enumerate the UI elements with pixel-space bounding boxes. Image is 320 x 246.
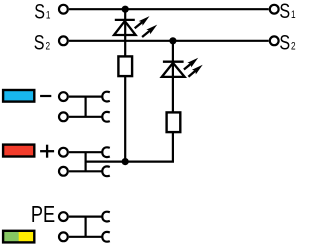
wire S2 [69, 40, 269, 42]
label S2 left [34, 31, 50, 55]
resistor R2 [167, 112, 181, 132]
label S1 left [34, 0, 50, 24]
wire minus link [84, 97, 86, 117]
wire PE upper [69, 216, 103, 218]
wire branch 2 vertical and corner [125, 41, 173, 162]
label plus [40, 145, 54, 158]
resistor R1 [118, 56, 132, 76]
terminal plus upper circle [59, 148, 68, 157]
terminal S1 right [270, 5, 279, 14]
wire PE link [84, 217, 86, 237]
LED V2 [162, 58, 203, 77]
terminal S2 left [59, 36, 68, 45]
marker minus (blue) [3, 90, 34, 102]
label PE [31, 202, 55, 228]
clamp contact PE lower [102, 232, 110, 242]
wire plus lower [69, 170, 103, 172]
wire branch 1 vertical [124, 9, 126, 161]
node junction on S2 [169, 37, 176, 44]
clamp contact PE upper [102, 212, 110, 222]
node junction on S1 [122, 6, 129, 13]
wire PE lower [69, 236, 103, 238]
label S2 right [279, 31, 295, 55]
LED V1 [114, 16, 157, 37]
label S1 right [279, 0, 295, 23]
wire plus link [84, 152, 86, 171]
terminal S2 right [270, 36, 279, 45]
clamp contact plus upper [102, 147, 110, 157]
marker PE (green/yellow) [3, 231, 34, 243]
terminal minus lower circle [59, 112, 68, 121]
clamp contact plus lower [102, 166, 110, 176]
clamp contact minus upper [102, 92, 110, 102]
terminal plus lower circle [59, 167, 68, 176]
label minus [40, 95, 51, 97]
terminal S1 left [59, 5, 68, 14]
wire S1 [69, 8, 269, 10]
marker plus (red) [3, 145, 34, 157]
wire minus lower [69, 116, 103, 118]
svg-text:PE: PE [31, 202, 55, 228]
terminal PE upper circle [59, 212, 68, 221]
wire plus tap [86, 161, 126, 163]
wire plus upper [69, 151, 103, 153]
clamp contact minus lower [102, 112, 110, 122]
wire minus upper [69, 95, 103, 97]
node junction plus [122, 158, 129, 165]
terminal minus upper circle [59, 92, 68, 101]
terminal PE lower circle [59, 232, 68, 241]
